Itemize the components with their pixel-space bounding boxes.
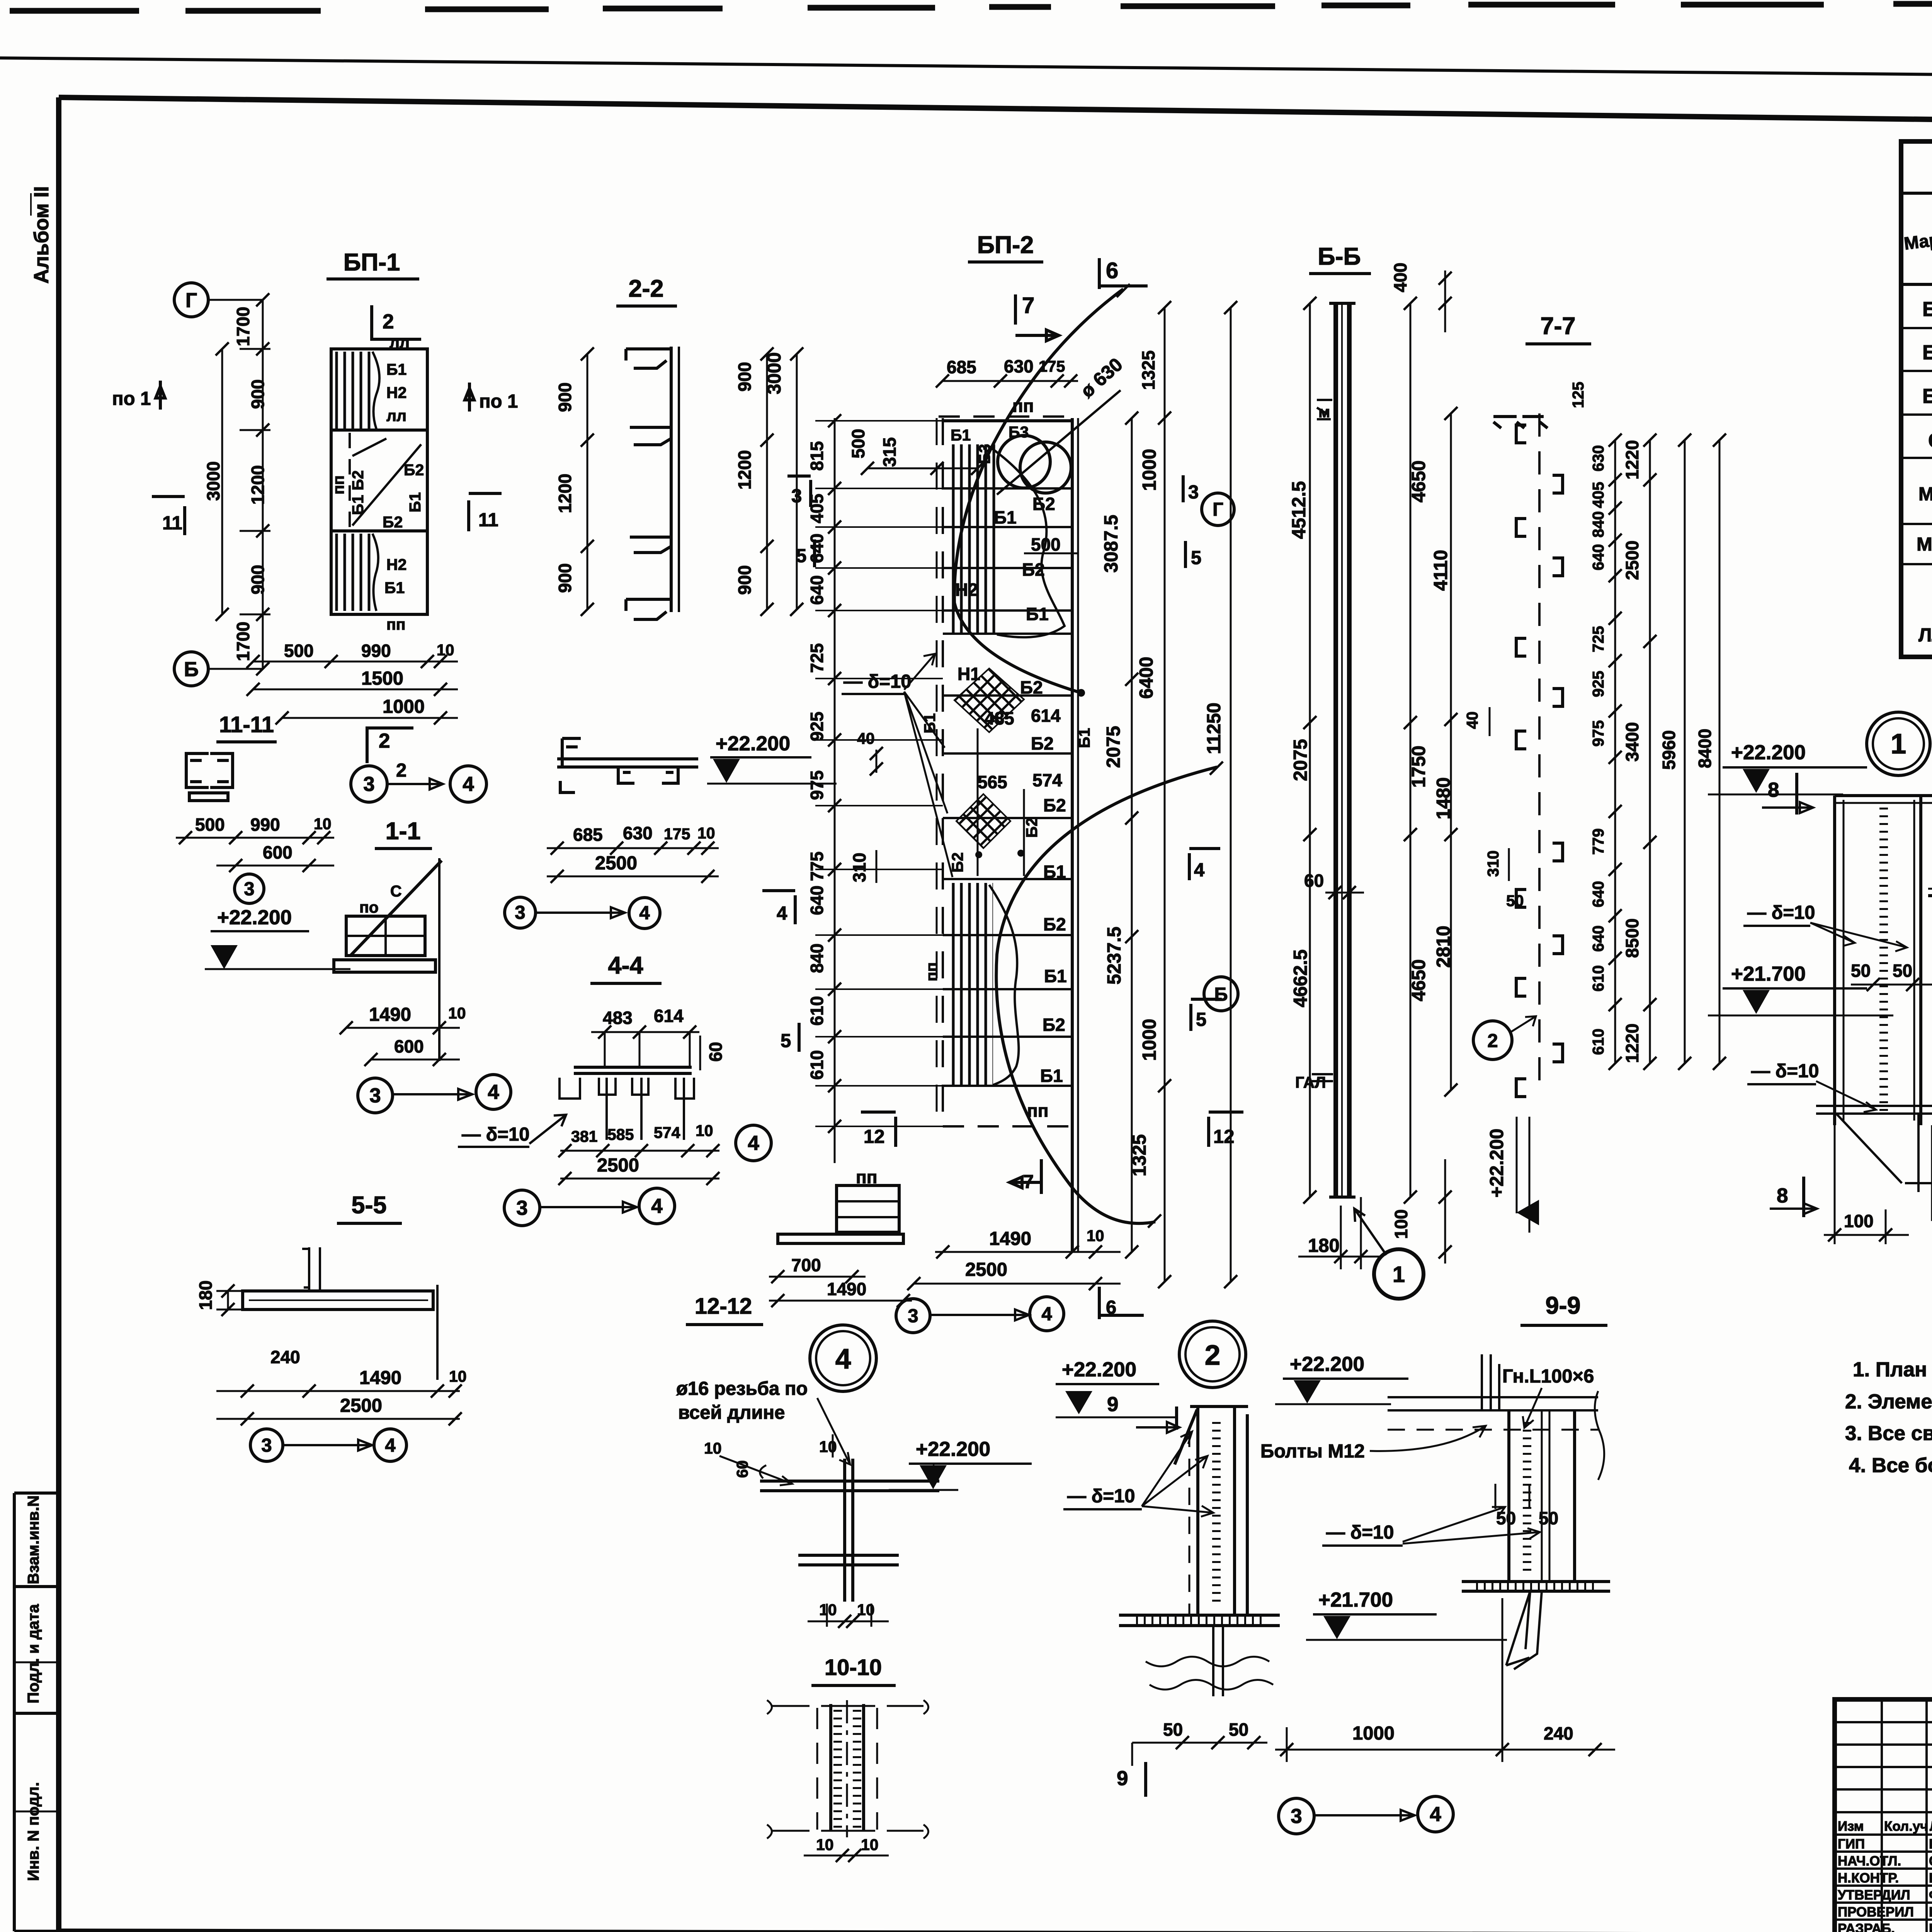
svg-text:40: 40 — [1463, 711, 1481, 729]
svg-text:2: 2 — [383, 310, 394, 333]
svg-text:1200: 1200 — [248, 465, 268, 505]
svg-text:50: 50 — [1851, 961, 1871, 981]
svg-text:— δ=10: — δ=10 — [1747, 902, 1815, 923]
svg-text:3087.5: 3087.5 — [1101, 515, 1122, 573]
svg-text:840: 840 — [807, 944, 827, 973]
svg-text:9-9: 9-9 — [1545, 1292, 1580, 1319]
svg-text:10: 10 — [449, 1367, 467, 1385]
svg-text:+22.200: +22.200 — [217, 906, 292, 929]
svg-text:по 1: по 1 — [112, 388, 151, 409]
svg-text:Б1: Б1 — [994, 507, 1017, 527]
svg-text:5: 5 — [1196, 1009, 1206, 1030]
svg-text:3: 3 — [1291, 1805, 1302, 1828]
svg-text:2: 2 — [379, 730, 390, 752]
svg-text:3: 3 — [516, 1197, 527, 1219]
svg-text:60: 60 — [733, 1460, 751, 1478]
svg-text:3: 3 — [363, 773, 374, 796]
svg-text:Г: Г — [185, 289, 197, 312]
svg-text:180: 180 — [196, 1281, 216, 1310]
svg-text:640: 640 — [1589, 925, 1607, 952]
svg-text:900: 900 — [555, 563, 575, 593]
svg-text:пп: пп — [1027, 1100, 1049, 1121]
svg-text:975: 975 — [807, 770, 827, 800]
svg-text:10: 10 — [861, 1836, 879, 1854]
svg-text:4650: 4650 — [1408, 460, 1429, 502]
svg-text:Изм: Изм — [1838, 1819, 1864, 1834]
svg-text:Г: Г — [1213, 499, 1223, 520]
svg-text:12: 12 — [864, 1126, 885, 1147]
svg-text:180: 180 — [1308, 1235, 1340, 1256]
svg-text:1500: 1500 — [361, 668, 403, 689]
svg-text:1000: 1000 — [1352, 1723, 1395, 1744]
svg-text:4650: 4650 — [1408, 959, 1429, 1001]
svg-text:9: 9 — [1117, 1767, 1128, 1790]
svg-text:60: 60 — [706, 1042, 726, 1061]
svg-text:2075: 2075 — [1290, 739, 1311, 781]
svg-text:Б2: Б2 — [1022, 560, 1045, 580]
svg-text:574: 574 — [1032, 770, 1062, 790]
svg-text:100: 100 — [1844, 1211, 1874, 1231]
svg-text:1200: 1200 — [735, 450, 755, 490]
svg-text:12-12: 12-12 — [695, 1294, 752, 1319]
svg-text:3: 3 — [908, 1306, 918, 1327]
svg-text:пп: пп — [1012, 396, 1034, 416]
svg-text:СЕВОСТЬЯНОВ: СЕВОСТЬЯНОВ — [1929, 1854, 1932, 1869]
svg-text:+22.200: +22.200 — [1062, 1358, 1136, 1381]
svg-text:8500: 8500 — [1622, 918, 1642, 958]
svg-text:381: 381 — [571, 1128, 597, 1145]
svg-text:60: 60 — [1304, 871, 1324, 891]
svg-text:6400: 6400 — [1136, 656, 1157, 699]
svg-text:4: 4 — [463, 773, 474, 796]
svg-text:+22.200: +22.200 — [1486, 1129, 1507, 1198]
svg-text:1200: 1200 — [555, 474, 575, 513]
svg-text:1490: 1490 — [989, 1228, 1031, 1249]
svg-text:640: 640 — [807, 886, 827, 915]
svg-text:4512.5: 4512.5 — [1289, 481, 1310, 539]
svg-text:— δ=10: — δ=10 — [844, 671, 911, 692]
svg-text:3: 3 — [515, 902, 525, 923]
svg-text:2: 2 — [1487, 1031, 1498, 1051]
svg-text:+22.200: +22.200 — [716, 732, 790, 755]
svg-text:685: 685 — [573, 825, 603, 845]
svg-text:5-5: 5-5 — [351, 1192, 386, 1219]
svg-text:+21.700: +21.700 — [1318, 1588, 1393, 1611]
svg-text:по 1: по 1 — [479, 391, 518, 412]
svg-text:Б1: Б1 — [921, 713, 939, 733]
svg-text:990: 990 — [250, 815, 280, 835]
svg-text:640: 640 — [807, 534, 827, 563]
svg-text:Гн.L100×6: Гн.L100×6 — [1502, 1366, 1594, 1387]
svg-text:900: 900 — [735, 565, 755, 595]
svg-text:7: 7 — [1022, 293, 1034, 318]
svg-text:10-10: 10-10 — [825, 1655, 882, 1680]
svg-text:10: 10 — [1087, 1227, 1104, 1245]
svg-text:РАЗРАБ.: РАЗРАБ. — [1838, 1921, 1895, 1932]
svg-text:ЛЛ: ЛЛ — [1918, 625, 1932, 646]
svg-text:НАЧ.ОТЛ.: НАЧ.ОТЛ. — [1838, 1854, 1901, 1869]
svg-text:2. Элементы с неоговоренными: 2. Элементы с неоговоренными усилиями кр… — [1845, 1390, 1932, 1413]
svg-text:Б3: Б3 — [1922, 385, 1932, 408]
svg-text:2500: 2500 — [595, 853, 637, 874]
svg-text:925: 925 — [1589, 671, 1607, 697]
svg-text:6: 6 — [1106, 258, 1118, 283]
svg-text:10: 10 — [696, 1122, 713, 1139]
svg-text:483: 483 — [603, 1008, 633, 1028]
svg-text:315: 315 — [879, 437, 900, 467]
svg-text:Б2: Б2 — [383, 513, 403, 531]
svg-text:1-1: 1-1 — [385, 818, 420, 845]
svg-text:4: 4 — [1041, 1304, 1052, 1325]
svg-text:Б2: Б2 — [404, 461, 424, 479]
svg-text:500: 500 — [1031, 534, 1061, 554]
svg-text:2500: 2500 — [597, 1155, 639, 1176]
svg-text:3: 3 — [261, 1435, 272, 1456]
svg-text:175: 175 — [664, 825, 690, 843]
svg-text:Б2: Б2 — [1922, 341, 1932, 364]
svg-text:100: 100 — [1391, 1209, 1411, 1239]
svg-text:50: 50 — [1229, 1719, 1248, 1740]
svg-text:975: 975 — [1589, 720, 1607, 747]
svg-text:Подл. и дата: Подл. и дата — [24, 1604, 42, 1703]
svg-text:Н2: Н2 — [386, 556, 406, 573]
svg-text:3400: 3400 — [1622, 722, 1642, 762]
svg-text:900: 900 — [735, 362, 755, 392]
svg-text:1: 1 — [1891, 728, 1906, 760]
svg-text:+22.200: +22.200 — [1290, 1353, 1364, 1376]
svg-text:240: 240 — [270, 1347, 300, 1367]
svg-text:ПРОВЕРИЛ: ПРОВЕРИЛ — [1838, 1905, 1914, 1920]
svg-text:Б1: Б1 — [1044, 966, 1067, 986]
svg-text:4: 4 — [639, 903, 650, 923]
svg-text:Б1: Б1 — [951, 426, 971, 444]
svg-text:Б2: Б2 — [1043, 795, 1066, 815]
svg-text:500: 500 — [848, 429, 868, 459]
svg-text:240: 240 — [1544, 1723, 1573, 1743]
svg-text:— δ=10: — δ=10 — [1326, 1522, 1394, 1543]
svg-text:4: 4 — [835, 1344, 851, 1375]
svg-text:4-4: 4-4 — [608, 952, 643, 979]
svg-text:1000: 1000 — [383, 696, 425, 717]
svg-text:Б2: Б2 — [1020, 677, 1043, 697]
svg-text:700: 700 — [791, 1255, 821, 1275]
svg-text:Б1: Б1 — [1922, 298, 1932, 321]
svg-text:2500: 2500 — [965, 1259, 1007, 1280]
svg-text:630: 630 — [623, 823, 653, 843]
svg-text:640: 640 — [1589, 881, 1607, 907]
svg-text:614: 614 — [1031, 706, 1061, 726]
svg-text:405: 405 — [1589, 482, 1607, 508]
svg-text:Б: Б — [184, 658, 199, 681]
svg-text:+22.200: +22.200 — [916, 1438, 990, 1461]
svg-text:500: 500 — [195, 815, 225, 835]
svg-text:3: 3 — [369, 1084, 381, 1107]
svg-text:2075: 2075 — [1103, 726, 1124, 768]
svg-text:Б: Б — [1214, 984, 1228, 1005]
svg-text:685: 685 — [947, 357, 976, 377]
svg-text:3000: 3000 — [764, 352, 785, 394]
svg-text:585: 585 — [607, 1126, 634, 1143]
svg-text:1750: 1750 — [1408, 745, 1429, 787]
svg-text:5: 5 — [781, 1031, 791, 1051]
svg-text:Б1: Б1 — [1040, 1066, 1063, 1086]
svg-text:БАБУРИН: БАБУРИН — [1929, 1871, 1932, 1886]
svg-text:50: 50 — [1506, 892, 1524, 910]
svg-text:С: С — [1928, 429, 1932, 452]
svg-text:Лист: Лист — [1930, 1819, 1932, 1834]
svg-text:Б2: Б2 — [1043, 914, 1066, 934]
svg-text:— δ=10: — δ=10 — [1751, 1061, 1819, 1082]
svg-text:8: 8 — [1777, 1184, 1788, 1207]
svg-text:— δ=10: — δ=10 — [1067, 1486, 1135, 1507]
svg-text:640: 640 — [807, 575, 827, 605]
svg-text:3000: 3000 — [203, 461, 223, 501]
svg-text:175: 175 — [1039, 357, 1065, 375]
svg-text:815: 815 — [807, 441, 827, 471]
svg-text:1. План надсилосной площадки: 1. План надсилосной площадки см. на лист… — [1853, 1358, 1932, 1381]
svg-text:2810: 2810 — [1433, 925, 1454, 968]
svg-text:Б3: Б3 — [976, 444, 993, 464]
svg-text:400: 400 — [1390, 263, 1410, 293]
svg-text:775: 775 — [807, 852, 827, 881]
svg-text:610: 610 — [807, 1050, 827, 1080]
svg-text:3. Все сварные швы принимать: 3. Все сварные швы принимать по расчетны… — [1845, 1422, 1932, 1445]
svg-text:50: 50 — [1539, 1508, 1558, 1528]
svg-text:ø16 резьба по: ø16 резьба по — [676, 1378, 808, 1399]
svg-text:10: 10 — [314, 815, 332, 833]
svg-text:3: 3 — [1188, 482, 1199, 503]
svg-text:1325: 1325 — [1138, 350, 1158, 390]
svg-text:4: 4 — [777, 903, 787, 924]
svg-text:Б2: Б2 — [1032, 494, 1055, 514]
svg-text:Инв. N подл.: Инв. N подл. — [24, 1782, 42, 1881]
svg-text:2500: 2500 — [340, 1395, 382, 1416]
svg-text:1220: 1220 — [1622, 1024, 1642, 1063]
svg-text:1490: 1490 — [359, 1367, 401, 1388]
svg-text:610: 610 — [1589, 965, 1607, 992]
svg-text:БАБУРИН: БАБУРИН — [1929, 1905, 1932, 1920]
svg-text:всей длине: всей длине — [678, 1402, 785, 1423]
svg-text:2500: 2500 — [1622, 541, 1642, 580]
svg-text:пп: пп — [386, 616, 406, 633]
svg-text:11: 11 — [478, 510, 498, 531]
svg-text:Н.КОНТР.: Н.КОНТР. — [1838, 1871, 1899, 1886]
svg-text:50: 50 — [1163, 1719, 1183, 1740]
svg-text:1490: 1490 — [827, 1279, 866, 1299]
svg-text:500: 500 — [284, 641, 314, 661]
svg-text:11250: 11250 — [1204, 702, 1225, 754]
svg-text:1220: 1220 — [1622, 440, 1642, 480]
svg-text:4110: 4110 — [1430, 550, 1451, 591]
svg-text:Б1: Б1 — [1026, 604, 1049, 624]
svg-text:125: 125 — [1569, 382, 1587, 408]
svg-text:900: 900 — [555, 383, 575, 412]
svg-text:М2: М2 — [1917, 534, 1932, 555]
svg-text:ГИП: ГИП — [1838, 1837, 1865, 1852]
svg-text:10: 10 — [704, 1439, 722, 1457]
svg-text:1: 1 — [1393, 1262, 1405, 1287]
svg-text:4. Все болты М16 класс 5.8, к: 4. Все болты М16 класс 5.8, кроме оговор… — [1849, 1454, 1932, 1477]
svg-text:640: 640 — [1589, 544, 1607, 570]
svg-text:+21.700: +21.700 — [1731, 963, 1806, 985]
svg-text:Б1 Б2: Б1 Б2 — [349, 470, 367, 515]
svg-text:50: 50 — [1496, 1508, 1516, 1528]
svg-text:3: 3 — [244, 879, 254, 900]
svg-text:4: 4 — [1194, 860, 1204, 881]
svg-text:10: 10 — [816, 1836, 834, 1854]
svg-text:310: 310 — [1484, 850, 1502, 877]
svg-text:3: 3 — [791, 486, 802, 507]
svg-text:1700: 1700 — [233, 307, 253, 346]
svg-text:лл: лл — [386, 407, 406, 425]
svg-text:ФЕДОТОВ: ФЕДОТОВ — [1929, 1888, 1932, 1903]
svg-text:12: 12 — [1213, 1126, 1235, 1147]
svg-text:630: 630 — [1589, 445, 1607, 471]
svg-text:Н1: Н1 — [957, 664, 980, 684]
svg-text:40: 40 — [857, 730, 875, 747]
svg-text:900: 900 — [248, 565, 268, 595]
svg-text:10: 10 — [819, 1438, 837, 1456]
svg-text:610: 610 — [807, 996, 827, 1026]
svg-text:1490: 1490 — [369, 1004, 411, 1025]
svg-text:Кол.уч: Кол.уч — [1884, 1819, 1928, 1834]
svg-text:Альбом II: Альбом II — [30, 186, 53, 284]
svg-text:+22.200: +22.200 — [1731, 741, 1806, 764]
svg-text:4: 4 — [651, 1195, 663, 1218]
svg-text:10: 10 — [697, 824, 715, 842]
svg-text:пп: пп — [330, 475, 347, 495]
svg-text:9: 9 — [1107, 1393, 1118, 1416]
svg-text:7-7: 7-7 — [1540, 313, 1575, 340]
svg-text:50: 50 — [1893, 961, 1912, 981]
svg-text:Н2: Н2 — [955, 580, 978, 600]
svg-text:Б1: Б1 — [1043, 862, 1066, 882]
svg-text:Б2: Б2 — [1043, 1015, 1065, 1035]
svg-text:С: С — [390, 882, 402, 900]
svg-text:600: 600 — [263, 842, 293, 862]
svg-text:лл: лл — [389, 333, 410, 351]
svg-text:565: 565 — [978, 772, 1007, 792]
svg-text:610: 610 — [1589, 1029, 1607, 1055]
svg-text:630: 630 — [1004, 356, 1034, 376]
svg-text:840: 840 — [1589, 511, 1607, 537]
svg-text:725: 725 — [1589, 626, 1607, 652]
svg-text:8400: 8400 — [1695, 729, 1715, 768]
svg-text:1000: 1000 — [1139, 1019, 1160, 1061]
svg-text:КУЗНЕЦОВ: КУЗНЕЦОВ — [1929, 1837, 1932, 1852]
svg-text:2: 2 — [1205, 1340, 1221, 1371]
svg-text:БП-2: БП-2 — [977, 231, 1034, 259]
svg-text:990: 990 — [361, 641, 391, 661]
svg-text:Б2: Б2 — [1031, 733, 1054, 753]
svg-text:Болты М12: Болты М12 — [1260, 1441, 1365, 1462]
svg-text:5: 5 — [796, 546, 806, 566]
svg-text:10: 10 — [448, 1004, 466, 1022]
svg-text:— δ=10: — δ=10 — [462, 1124, 529, 1145]
svg-text:Б1: Б1 — [406, 492, 424, 512]
svg-text:5: 5 — [1191, 548, 1201, 568]
svg-text:1700: 1700 — [233, 622, 253, 661]
svg-text:600: 600 — [394, 1036, 424, 1056]
svg-text:2: 2 — [396, 760, 406, 781]
svg-text:М1: М1 — [1918, 484, 1932, 505]
svg-text:м: м — [1318, 403, 1330, 421]
svg-text:900: 900 — [248, 379, 268, 409]
svg-text:5960: 5960 — [1659, 730, 1679, 770]
svg-text:1480: 1480 — [1433, 777, 1454, 819]
svg-text:4: 4 — [385, 1435, 395, 1456]
svg-text:Б1: Б1 — [1075, 728, 1093, 748]
svg-text:574: 574 — [654, 1124, 680, 1141]
svg-text:Н2: Н2 — [386, 384, 406, 401]
svg-text:10: 10 — [819, 1601, 837, 1619]
svg-text:пп: пп — [923, 962, 940, 981]
svg-text:1000: 1000 — [1139, 449, 1160, 491]
svg-text:8: 8 — [1768, 779, 1779, 801]
svg-text:по: по — [359, 898, 379, 916]
svg-text:779: 779 — [1589, 828, 1607, 855]
svg-text:485: 485 — [985, 708, 1014, 728]
svg-text:1325: 1325 — [1129, 1134, 1150, 1176]
svg-text:11-11: 11-11 — [219, 712, 274, 737]
svg-text:310: 310 — [849, 853, 869, 883]
svg-text:Б1: Б1 — [386, 361, 406, 378]
svg-text:614: 614 — [654, 1006, 684, 1026]
svg-text:4: 4 — [1430, 1803, 1441, 1826]
svg-text:925: 925 — [807, 712, 827, 742]
svg-text:11: 11 — [162, 513, 182, 534]
svg-text:4: 4 — [488, 1081, 499, 1104]
svg-text:Б-Б: Б-Б — [1318, 243, 1361, 270]
svg-text:БИТКОВА: БИТКОВА — [1929, 1921, 1932, 1932]
svg-text:Б2: Б2 — [1023, 818, 1041, 838]
svg-text:Б1: Б1 — [384, 579, 405, 597]
svg-text:725: 725 — [807, 643, 827, 673]
svg-text:5237.5: 5237.5 — [1104, 927, 1125, 985]
svg-text:4662.5: 4662.5 — [1290, 949, 1311, 1007]
svg-text:Взам.инв.N: Взам.инв.N — [24, 1495, 42, 1584]
svg-text:2-2: 2-2 — [628, 275, 663, 302]
svg-text:УТВЕРДИЛ: УТВЕРДИЛ — [1838, 1888, 1910, 1903]
svg-text:БП-1: БП-1 — [344, 249, 400, 276]
svg-text:4: 4 — [748, 1132, 759, 1155]
